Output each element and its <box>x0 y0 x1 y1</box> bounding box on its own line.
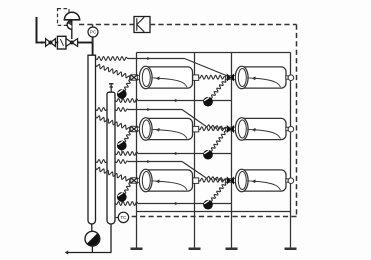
svg-text:PC: PC <box>90 30 97 35</box>
svg-text:TC: TC <box>120 215 127 220</box>
